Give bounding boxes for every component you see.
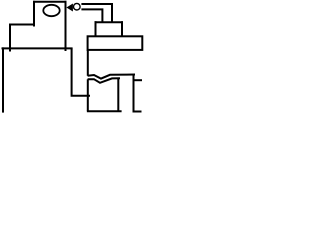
wire vertical B — [33, 1, 35, 27]
rectangle R — [88, 36, 143, 50]
wire stub — [135, 79, 143, 81]
box top edge — [95, 21, 124, 23]
wire lower right — [81, 9, 102, 22]
wire left vertical F — [2, 47, 4, 112]
box left side — [95, 21, 97, 36]
break lower line — [88, 78, 120, 83]
wire long horizontal E — [2, 47, 73, 49]
wire mid vertical lower — [87, 79, 89, 111]
box right side — [121, 21, 123, 36]
wire hook — [72, 48, 90, 95]
wire right vertical — [133, 75, 135, 112]
wire mid vertical upper — [87, 50, 89, 76]
wire vertical D — [9, 24, 11, 52]
wire horizontal C — [9, 24, 35, 26]
wire floor — [87, 110, 122, 112]
break upper line — [88, 75, 135, 79]
lamp ellipse — [43, 5, 59, 16]
node circle — [74, 3, 81, 10]
wire top horizontal A — [33, 1, 67, 3]
wire right vertical G — [65, 1, 67, 51]
wire vertical under break — [117, 78, 119, 111]
arrowhead — [66, 4, 73, 12]
wire right foot — [133, 111, 142, 113]
wire upper right — [81, 4, 112, 22]
